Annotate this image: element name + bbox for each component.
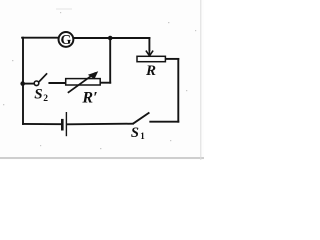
battery BT1 long thin plate (66, 112, 67, 136)
wire wiper drop vertical (148, 38, 150, 50)
scan edge line right (200, 0, 201, 160)
scan speckles (3, 12, 196, 149)
node junction dot top (108, 36, 113, 41)
paper background (0, 0, 204, 160)
wire left vertical (22, 38, 24, 124)
svg-text:2: 2 (43, 94, 48, 104)
wire right vertical (177, 59, 179, 122)
scan smudge top (56, 9, 72, 10)
switch S1 blade (133, 113, 149, 124)
galvanometer U1 circle (59, 32, 74, 47)
wiper arrowhead onto R (146, 51, 153, 56)
battery BT1 short thick plate (61, 119, 64, 131)
wire R-box to right vertical (165, 58, 178, 60)
svg-text:1: 1 (140, 131, 145, 141)
wire bottom-left horizontal (23, 123, 61, 125)
svg-text:S: S (34, 86, 42, 102)
wire top-right horizontal (74, 37, 150, 39)
bottom scan line (0, 157, 204, 158)
wire bottom battery-to-S1 (67, 123, 133, 126)
rheostat R-prime box (66, 79, 101, 85)
wire top-left horizontal (22, 37, 58, 39)
wire S2 branch: dot to switch circle (23, 83, 33, 85)
rheostat R-prime arrow shaft (68, 73, 96, 93)
wire bottom-right horizontal (150, 121, 178, 123)
svg-text:R′: R′ (81, 89, 97, 106)
resistor R box (137, 56, 165, 61)
wire S2 to R-prime box (49, 82, 65, 84)
switch S2 contact circle (34, 81, 39, 86)
svg-text:S: S (131, 125, 139, 141)
wire R-prime box to riser (100, 82, 110, 84)
svg-text:G: G (60, 33, 71, 48)
switch S2 blade (39, 73, 47, 82)
svg-text:R: R (145, 63, 156, 79)
node junction dot left (20, 81, 25, 86)
rheostat R-prime arrowhead (88, 71, 98, 79)
wire middle riser vertical (109, 38, 111, 83)
